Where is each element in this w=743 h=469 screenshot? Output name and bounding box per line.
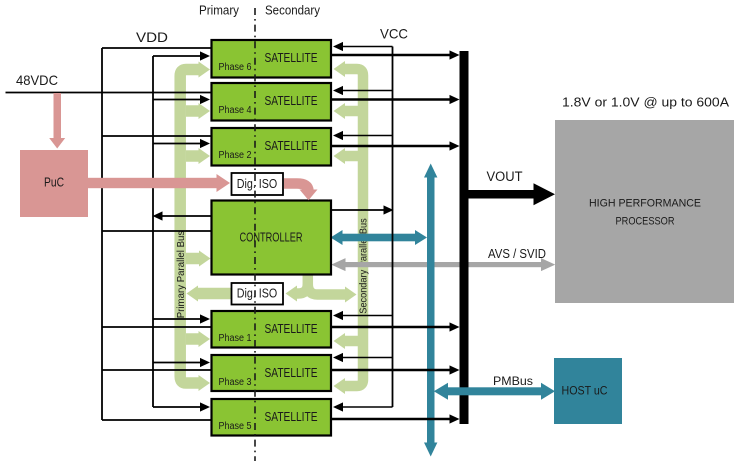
svg-text:Primary: Primary bbox=[199, 4, 240, 18]
AVS / SVID gray double arrow bbox=[331, 258, 555, 271]
wire phase1 right in-line with arrow bbox=[342, 315, 393, 317]
svg-text:Phase 3: Phase 3 bbox=[219, 377, 252, 388]
svg-text:Phase 4: Phase 4 bbox=[219, 105, 252, 116]
wire phase6 right in-line with arrow bbox=[342, 46, 393, 48]
satellite Phase 3 bbox=[212, 355, 332, 391]
satellite Phase 6 bbox=[212, 40, 332, 78]
svg-text:Phase 6: Phase 6 bbox=[219, 62, 252, 73]
high performance processor box bbox=[555, 120, 734, 303]
wire phase3 left line A bbox=[102, 369, 212, 371]
svg-text:VOUT: VOUT bbox=[487, 169, 523, 184]
wire controller left line A bbox=[102, 230, 212, 232]
wire VCC rail (x=392.5) bbox=[392, 47, 394, 408]
satellite Phase 2 bbox=[212, 128, 332, 166]
VOUT thick arrow bbox=[469, 183, 556, 205]
svg-text:PMBus: PMBus bbox=[493, 374, 533, 388]
wire phase2 right out-line to bar bbox=[331, 145, 451, 147]
wire phase1 right out-line to bar bbox=[331, 326, 451, 328]
HOST uC box bbox=[554, 358, 622, 424]
wire phase5 left line with arrow bbox=[153, 406, 201, 408]
VOUT bus bar (black vertical) bbox=[460, 51, 469, 424]
satellite Phase 5 bbox=[212, 399, 332, 436]
48VDC down arrow (pink) bbox=[49, 93, 65, 149]
wire phase5 right out-line to bar bbox=[331, 418, 451, 420]
svg-text:Phase 1: Phase 1 bbox=[219, 333, 252, 344]
wire second left rail (x=153) bbox=[152, 56, 154, 407]
satellite Phase 4 bbox=[212, 83, 332, 121]
wire phase5 right in-line with arrow bbox=[342, 406, 393, 408]
svg-text:Dig. ISO: Dig. ISO bbox=[237, 177, 278, 191]
primary/secondary divider dash-dot line bbox=[254, 8, 256, 461]
satellite Phase 1 bbox=[212, 311, 332, 348]
svg-text:SATELLITE: SATELLITE bbox=[265, 139, 318, 153]
svg-text:SATELLITE: SATELLITE bbox=[265, 322, 318, 336]
wire phase2 left line B with arrow bbox=[153, 143, 201, 145]
svg-text:48VDC: 48VDC bbox=[16, 72, 58, 88]
svg-text:Primary Parallel Bus: Primary Parallel Bus bbox=[176, 231, 187, 319]
Dig ISO to controller pink curve arrow bbox=[284, 184, 309, 192]
primary parallel bus (light green band, left) bbox=[180, 70, 231, 384]
wire VDD rail (left vertical x=102) bbox=[101, 48, 103, 420]
wire controller left arrow (to rail) bbox=[162, 215, 212, 217]
svg-text:Phase 2: Phase 2 bbox=[219, 150, 252, 161]
wire phase6 right out-line to bar bbox=[331, 54, 451, 56]
wire phase6 left line B with arrow bbox=[153, 55, 201, 57]
svg-text:Phase 5: Phase 5 bbox=[219, 421, 252, 432]
wire phase2 right in-line with arrow bbox=[342, 135, 393, 137]
svg-text:VDD: VDD bbox=[136, 29, 168, 45]
wire phase1 left line A bbox=[102, 326, 212, 328]
svg-text:SATELLITE: SATELLITE bbox=[265, 51, 318, 65]
wire phase4 left line B with arrow bbox=[153, 99, 201, 101]
wire phase3 left line with arrow bbox=[153, 362, 201, 364]
wire phase3 right in-line with arrow bbox=[342, 357, 393, 359]
controller PMBus teal double arrow bbox=[331, 230, 428, 245]
wire phase4 right out-line to bar bbox=[331, 98, 451, 100]
svg-text:HOST uC: HOST uC bbox=[562, 384, 608, 398]
svg-text:CONTROLLER: CONTROLLER bbox=[240, 231, 303, 245]
svg-text:HIGH PERFORMANCE: HIGH PERFORMANCE bbox=[589, 198, 701, 210]
wire phase1 left line with arrow bbox=[153, 318, 201, 320]
wire phase4 right in-line with arrow bbox=[342, 90, 393, 92]
wire 48VDC input line bbox=[6, 92, 212, 94]
svg-text:Dig. ISO: Dig. ISO bbox=[237, 287, 278, 301]
PMBus vertical teal arrow bbox=[424, 164, 437, 457]
svg-text:PROCESSOR: PROCESSOR bbox=[616, 216, 675, 228]
PuC to Dig ISO pink arrow bbox=[88, 174, 230, 192]
controller U1 bbox=[212, 201, 332, 275]
wire phase3 right out-line to bar bbox=[331, 369, 451, 371]
svg-text:Secondary: Secondary bbox=[265, 4, 321, 18]
secondary parallel bus (light green band, right) bbox=[295, 69, 364, 386]
svg-text:VCC: VCC bbox=[380, 26, 408, 42]
svg-text:PuC: PuC bbox=[44, 175, 64, 190]
Dig ISO 1 (top) bbox=[232, 173, 284, 195]
svg-text:SATELLITE: SATELLITE bbox=[265, 94, 318, 108]
svg-text:1.8V or 1.0V @ up to 600A: 1.8V or 1.0V @ up to 600A bbox=[562, 95, 729, 110]
wire phase6 left line A bbox=[102, 47, 212, 49]
Dig ISO 2 (bottom) bbox=[232, 283, 284, 305]
wire controller right arrow to VCC rail bbox=[331, 209, 384, 211]
svg-text:AVS / SVID: AVS / SVID bbox=[488, 246, 546, 261]
PuC box bbox=[20, 150, 88, 217]
PMBus horizontal teal double arrow to HOST uC bbox=[434, 383, 555, 400]
wire phase5 left line A bbox=[102, 419, 212, 421]
svg-text:SATELLITE: SATELLITE bbox=[265, 366, 318, 380]
svg-text:SATELLITE: SATELLITE bbox=[265, 410, 318, 424]
wire phase2 left line A bbox=[102, 135, 212, 137]
